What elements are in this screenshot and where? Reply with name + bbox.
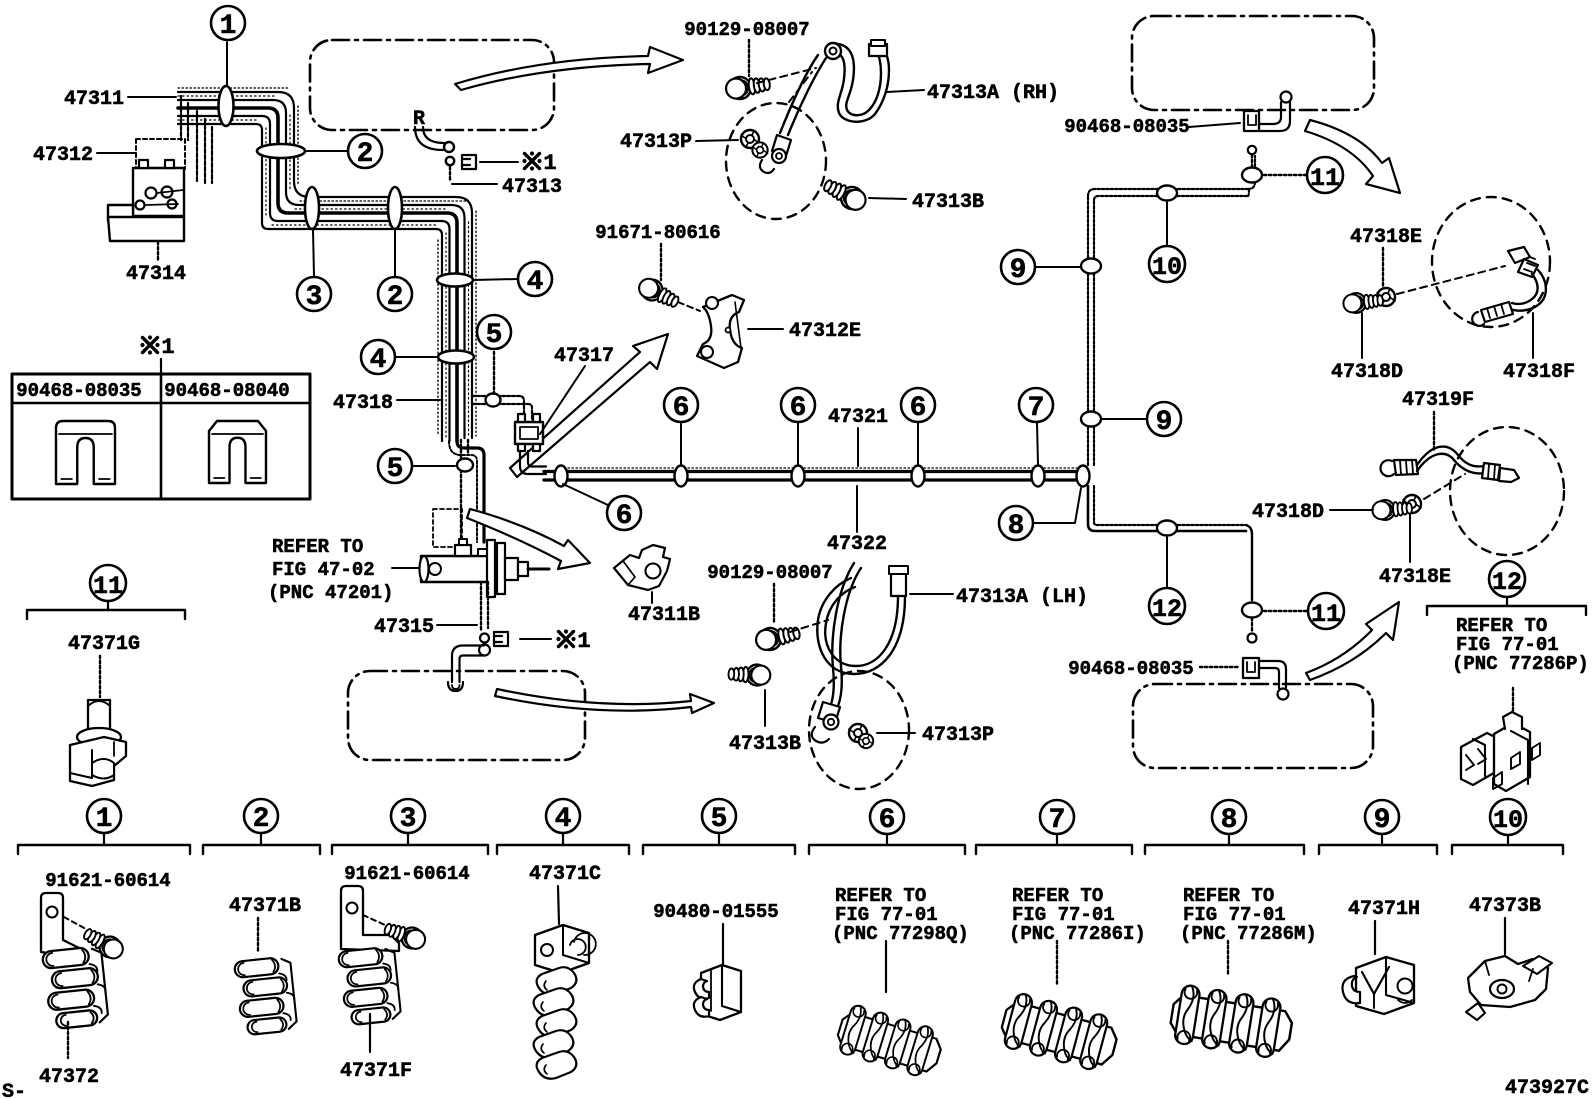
proportioning valve 47317 <box>515 414 543 451</box>
label x1 mid <box>556 629 590 654</box>
dashed leaders bolt to hose LH <box>790 620 828 632</box>
label 47318 <box>333 392 440 415</box>
svg-text:6: 6 <box>616 501 633 532</box>
svg-text:47373B: 47373B <box>1469 895 1541 918</box>
bolt c3 <box>382 918 428 952</box>
grommet clamp point 9a on rear tube <box>1081 259 1101 274</box>
label 47318D lower <box>1252 501 1373 524</box>
flare nut 47315 <box>480 634 489 643</box>
svg-text:9: 9 <box>1156 407 1173 438</box>
clamp icon 47371G <box>70 700 126 786</box>
svg-text:47313: 47313 <box>502 176 562 199</box>
bolt 47313B LH <box>728 664 771 686</box>
corner text S- <box>2 1081 26 1099</box>
grommet clamp point 3 on bundle <box>305 187 319 229</box>
leader x1 top <box>480 161 518 163</box>
label 47319F <box>1402 389 1474 450</box>
circled 2 lower <box>378 277 412 313</box>
leader circled 6d <box>917 423 919 464</box>
leader clamp 12 <box>1512 688 1514 734</box>
svg-text:47311: 47311 <box>64 88 124 111</box>
clamp c9 <box>1342 957 1414 1014</box>
label 47312 <box>33 144 136 167</box>
arrow to 47312E <box>510 334 668 477</box>
label 47321 <box>828 406 888 466</box>
svg-text:12: 12 <box>1152 595 1182 624</box>
circled 8 <box>999 506 1033 542</box>
leader c8 <box>1227 941 1229 976</box>
hose 47313A LH <box>812 563 908 743</box>
label 47371C <box>529 863 601 924</box>
label 47318E lower <box>1379 514 1451 589</box>
svg-text:90129-08007: 90129-08007 <box>684 19 809 41</box>
curved arrow to LH front hose <box>495 689 714 713</box>
circled 6a <box>607 496 641 532</box>
circled 7 <box>1019 388 1053 424</box>
tube elbow 47315 end <box>448 645 490 692</box>
circled 12a <box>1149 588 1185 624</box>
circled b1 <box>87 799 121 835</box>
dash-dot box rear RH body (top right) <box>1132 16 1374 110</box>
tube valve to main line <box>520 451 546 474</box>
grommet clamp point 4 lower on vertical bundle <box>438 351 474 364</box>
label 47312E <box>748 320 861 343</box>
svg-text:REFER TO: REFER TO <box>272 536 363 558</box>
circled 9b <box>1147 402 1181 438</box>
svg-text:91671-80616: 91671-80616 <box>595 222 720 244</box>
leader circled 5b <box>413 465 455 467</box>
svg-text:47313B: 47313B <box>912 191 984 214</box>
label 90129-08007 LH <box>707 562 832 622</box>
grommet clamp point 12a <box>1157 521 1177 536</box>
label 47311 <box>64 88 176 111</box>
circled 11a <box>1307 157 1343 193</box>
clamp c4 tail <box>534 967 577 1079</box>
dashed bolt leader c3 <box>363 915 385 925</box>
dash-dot box front body (top center) <box>310 40 554 130</box>
tube 47315 below cylinder <box>481 582 488 632</box>
bolt 47313B RH <box>820 175 869 215</box>
tube elbow out of rear RH body (top right) <box>1259 92 1292 132</box>
label 47318D upper <box>1331 313 1403 384</box>
label 47315 <box>374 616 477 639</box>
leader 47371F <box>369 1014 371 1052</box>
grommet clamp point 2 lower on bundle <box>388 187 402 229</box>
grommet clamp point 7 <box>1032 466 1045 487</box>
svg-text:47318D: 47318D <box>1252 501 1324 524</box>
grommet clamp point 6c <box>792 466 805 487</box>
svg-text:9: 9 <box>1010 255 1027 286</box>
dashed leader nut to hose LH <box>1424 474 1465 499</box>
svg-text:6: 6 <box>879 805 896 836</box>
svg-text:(PNC 77286M): (PNC 77286M) <box>1180 923 1317 945</box>
brake actuator dashed outline 47312 <box>136 139 185 169</box>
svg-text:(PNC 47201): (PNC 47201) <box>268 582 393 604</box>
tubes dropping from bundle into brake actuator <box>181 96 212 183</box>
grommet clamp point 4 upper on vertical bundle <box>437 274 473 287</box>
clip icon 90468-08035 <box>56 421 115 484</box>
label 47314 <box>126 222 186 286</box>
svg-text:47319F: 47319F <box>1402 389 1474 412</box>
flare circle rear RH <box>1248 146 1256 167</box>
circled b9 <box>1365 800 1399 836</box>
svg-text:47312E: 47312E <box>789 320 861 343</box>
bracket column 11 left <box>27 601 185 619</box>
svg-text:91621-60614: 91621-60614 <box>45 870 170 892</box>
circled b2 <box>244 799 278 835</box>
svg-text:5: 5 <box>387 454 404 485</box>
clip 90468-08035 rear LH <box>1243 658 1259 678</box>
label 47371B <box>229 895 301 953</box>
text refer fig 47-02 <box>268 536 393 604</box>
grommet clamp point 6b <box>675 466 688 487</box>
grommet clamp point 6d <box>912 466 925 487</box>
svg-text:47371F: 47371F <box>340 1060 412 1083</box>
junction grommet at main line end <box>1077 466 1090 487</box>
bracket column 1 <box>18 833 190 854</box>
circled 11 left <box>90 565 126 601</box>
bracket column 9 <box>1319 834 1437 854</box>
svg-text:(PNC 77286I): (PNC 77286I) <box>1009 923 1146 945</box>
bracket column 8 <box>1145 834 1304 854</box>
label 47313P RH <box>620 131 738 154</box>
clip x1 mid <box>494 632 508 646</box>
grommet clamp point 1 on bundle <box>219 86 234 126</box>
circled b8 <box>1212 800 1246 836</box>
clip table box <box>12 374 310 499</box>
label 47313B LH <box>729 690 801 756</box>
leader c6 <box>885 941 887 992</box>
flare circle 47313 <box>446 157 454 165</box>
circled 12b <box>1489 561 1525 597</box>
leader c7 <box>1056 941 1058 984</box>
svg-text:47372: 47372 <box>39 1066 99 1089</box>
label 90480-01555 c5 <box>653 901 778 964</box>
svg-text:47318D: 47318D <box>1331 361 1403 384</box>
circled b4 <box>546 799 580 835</box>
circled 9a <box>1001 250 1035 286</box>
dashed ellipse rear RH hose <box>1432 197 1550 327</box>
svg-text:47313P: 47313P <box>922 724 994 747</box>
dashed leader to 47312E <box>678 302 700 311</box>
leader circled 10 <box>1166 202 1168 245</box>
dash-dot box rear LH body (bottom right) <box>1133 684 1373 768</box>
leader circled 9a <box>1036 266 1080 268</box>
bolt 47318D lower <box>1372 498 1413 521</box>
clamp c8 <box>1168 983 1295 1060</box>
bracket column 12 <box>1427 597 1586 615</box>
curved arrow to rear RH hose <box>1305 120 1400 193</box>
svg-text:90480-01555: 90480-01555 <box>653 901 778 923</box>
svg-text:4: 4 <box>370 345 387 376</box>
label 90468-08035 upper <box>1064 116 1240 138</box>
clamp c1 <box>42 946 109 1030</box>
bracket column 4 <box>497 833 629 854</box>
label 47313A LH <box>910 586 1088 609</box>
clip symbol x1 top <box>462 155 476 169</box>
leader 47313 <box>450 167 497 184</box>
circled 2 upper <box>348 134 382 170</box>
clamp c4 head <box>535 925 596 973</box>
label 47322 <box>827 486 887 556</box>
bracket 47311B <box>614 545 670 590</box>
label 91621-60614 c1 <box>45 870 170 892</box>
svg-text:2: 2 <box>357 139 374 170</box>
bracket column 5 <box>643 833 795 854</box>
dashed bolt leader c1 <box>64 917 86 929</box>
svg-text:8: 8 <box>1008 511 1025 542</box>
label 47313 <box>502 176 562 199</box>
svg-text:47311B: 47311B <box>628 604 700 627</box>
clamp c3 <box>338 946 402 1026</box>
leader circled 2 upper <box>307 150 348 152</box>
curved arrow to column 12 clamp <box>1306 602 1399 680</box>
clamp c5 <box>694 965 741 1020</box>
nuts 47313P RH <box>741 130 768 158</box>
label 47311B <box>628 592 700 627</box>
svg-text:S-: S- <box>2 1081 26 1099</box>
grommet clamp point 9b on rear tube <box>1081 412 1101 427</box>
circled b6 <box>870 800 904 836</box>
grommet clamp point 5a on branch <box>486 394 501 407</box>
svg-text:47322: 47322 <box>827 533 887 556</box>
hose 47319F rear LH <box>1380 447 1519 482</box>
label 47317 <box>540 345 614 434</box>
svg-text:47313A (RH): 47313A (RH) <box>927 82 1059 105</box>
leader circled 11b <box>1264 610 1307 612</box>
svg-text:47313B: 47313B <box>729 733 801 756</box>
leader circled 8 <box>1034 488 1081 523</box>
table text 90468-08035 <box>16 380 141 402</box>
svg-text:(PNC 77298Q): (PNC 77298Q) <box>832 923 969 945</box>
svg-text:47371H: 47371H <box>1348 898 1420 921</box>
flare nut at R tube end <box>444 142 454 152</box>
bolt c1 <box>80 924 127 963</box>
svg-text:47371G: 47371G <box>68 633 140 656</box>
circled b7 <box>1040 800 1074 836</box>
svg-text:47371C: 47371C <box>529 863 601 886</box>
clamp icon 47373 column 12 <box>1461 712 1540 791</box>
circled b10 <box>1490 799 1526 835</box>
dashed leaders bolt to hose RH <box>757 68 816 102</box>
circled b5 <box>702 799 736 835</box>
label 47371F <box>340 1060 412 1083</box>
svg-text:6: 6 <box>673 393 690 424</box>
leader to master cylinder <box>392 567 420 569</box>
letter R node <box>413 108 425 131</box>
leader circled 7 <box>1037 423 1038 464</box>
grommet clamp point 5b <box>457 459 473 472</box>
rear tube to LH (solid down-right) <box>1088 486 1252 600</box>
leader circled 4 lower <box>396 356 437 358</box>
svg-text:1: 1 <box>577 629 590 654</box>
svg-text:47318E: 47318E <box>1350 226 1422 249</box>
svg-text:12: 12 <box>1492 568 1522 597</box>
leader circled 3 <box>313 230 314 276</box>
bolt 90129-08007 RH <box>725 73 772 101</box>
bolt 91671-80616 <box>635 275 682 313</box>
svg-text:47318E: 47318E <box>1379 566 1451 589</box>
svg-text:2: 2 <box>253 804 270 835</box>
text refer c8 <box>1180 885 1317 945</box>
svg-text:11: 11 <box>1310 164 1340 193</box>
svg-text:4: 4 <box>527 267 544 298</box>
label 90129-08007 RH <box>684 19 809 76</box>
leader circled 4 upper <box>474 279 517 280</box>
svg-text:2: 2 <box>387 282 404 313</box>
svg-text:4: 4 <box>555 804 572 835</box>
circled 6c <box>781 388 815 424</box>
label 47313A RH <box>887 82 1059 105</box>
svg-text:473927C: 473927C <box>1505 1077 1589 1099</box>
svg-text:1: 1 <box>96 804 113 835</box>
hose 47313A RH <box>760 40 889 173</box>
svg-text:1: 1 <box>543 151 556 176</box>
text refer fig 77-01 PNC77286P <box>1452 615 1589 675</box>
label 91671-80616 <box>595 222 720 280</box>
grommet clamp point 2 on bundle (upper) <box>257 144 305 158</box>
svg-text:11: 11 <box>1311 600 1341 629</box>
tube bundle 47311 run (5 parallel brake tubes master cylinder to floor) <box>178 92 472 441</box>
nut 47318E upper <box>1377 288 1395 306</box>
bracket column 7 <box>976 834 1132 854</box>
svg-text:7: 7 <box>1028 393 1045 424</box>
svg-text:9: 9 <box>1374 805 1391 836</box>
hose 47318F rear RH <box>1472 247 1546 326</box>
svg-text:3: 3 <box>400 804 417 835</box>
text refer c6 <box>832 885 969 945</box>
label 47372 <box>39 1066 99 1089</box>
label 47371H <box>1348 898 1420 954</box>
label 47371G <box>68 633 140 697</box>
leader circled 2 lower <box>394 230 396 276</box>
corner text 473927C <box>1505 1077 1589 1099</box>
clip icon 90468-08040 <box>209 421 266 483</box>
clip 90468-08035 upper <box>1244 111 1259 131</box>
svg-text:90129-08007: 90129-08007 <box>707 562 832 584</box>
svg-text:47318F: 47318F <box>1503 361 1575 384</box>
bolt 90129-08007 LH <box>754 622 802 653</box>
svg-text:5: 5 <box>486 320 503 351</box>
bracket column 6 <box>809 834 965 854</box>
leader circled 12a <box>1166 537 1168 587</box>
leader circled 9b <box>1102 418 1146 420</box>
svg-text:8: 8 <box>1221 805 1238 836</box>
tube branch to proportioning valve 47317 <box>472 396 532 420</box>
svg-text:1: 1 <box>220 11 237 42</box>
svg-text:47312: 47312 <box>33 144 93 167</box>
leader circled 6b <box>680 423 682 464</box>
curved arrow to 47311B <box>467 509 590 569</box>
svg-text:90468-08035: 90468-08035 <box>1068 658 1193 680</box>
grommet clamp point 6a <box>555 466 568 487</box>
dashed ellipse rear LH hose <box>1450 427 1564 555</box>
leader circled 6c <box>797 423 799 464</box>
svg-text:90468-08035: 90468-08035 <box>1064 116 1189 138</box>
label 47318E upper <box>1350 226 1422 287</box>
svg-text:47317: 47317 <box>554 345 614 368</box>
strap bracket c3 <box>341 886 399 951</box>
svg-text:47313A (LH): 47313A (LH) <box>956 586 1088 609</box>
label 91621-60614 c3 <box>344 863 469 885</box>
label 47318F <box>1503 313 1575 384</box>
svg-text:91621-60614: 91621-60614 <box>344 863 469 885</box>
circled 4 lower <box>361 340 395 376</box>
leader circled 5 upper <box>493 352 495 393</box>
svg-text:10: 10 <box>1152 253 1182 282</box>
clamp c6 <box>833 1002 946 1080</box>
strap bracket c1 <box>41 893 83 958</box>
leader circled 11a <box>1264 174 1307 176</box>
nut 47318E lower <box>1403 495 1421 513</box>
leader circled 1 <box>226 42 228 85</box>
cushion 47312E <box>697 295 744 368</box>
circled 6b <box>664 388 698 424</box>
brake actuator body 47314 <box>108 160 184 241</box>
svg-text:10: 10 <box>1493 806 1523 835</box>
circled 5 upper <box>477 315 511 351</box>
svg-text:1: 1 <box>161 335 174 360</box>
circled 6d <box>901 388 935 424</box>
master cylinder PNC47201 <box>420 539 550 597</box>
tube elbow into rear LH body <box>1259 661 1289 700</box>
leader circled 6a <box>563 484 610 506</box>
dashed ellipse RH hose detail <box>726 103 826 219</box>
grommet clamp point 11b <box>1242 603 1262 618</box>
svg-text:5: 5 <box>711 804 728 835</box>
grommet clamp point 11a <box>1242 168 1262 183</box>
table text 90468-08040 <box>164 380 289 402</box>
svg-text:6: 6 <box>910 393 927 424</box>
bolt 47318D upper <box>1342 290 1383 314</box>
svg-text:47321: 47321 <box>828 406 888 429</box>
grommet clamp point 10 on rear tube <box>1157 186 1177 201</box>
tube down through clamp 5b (hatched) <box>461 440 468 540</box>
svg-text:47318: 47318 <box>333 392 393 415</box>
svg-text:11: 11 <box>93 572 123 601</box>
tube from node R <box>415 127 444 150</box>
svg-text:FIG 47-02: FIG 47-02 <box>272 559 375 581</box>
clamp c10 <box>1466 956 1552 1020</box>
main brake tube pair 47321 47322 <box>544 468 1085 480</box>
svg-text:(PNC 77286P): (PNC 77286P) <box>1452 653 1589 675</box>
svg-text:3: 3 <box>306 282 323 313</box>
label x1 above table <box>140 335 174 373</box>
circled 11b <box>1308 593 1344 629</box>
svg-text:90468-08040: 90468-08040 <box>164 380 289 402</box>
rear tube to RH (dotted up) <box>1088 156 1255 465</box>
dashed ellipse LH hose detail <box>809 671 909 789</box>
svg-text:90468-08035: 90468-08035 <box>16 380 141 402</box>
label x1 top <box>522 151 556 176</box>
text refer c7 <box>1009 885 1146 945</box>
svg-text:47314: 47314 <box>126 263 186 286</box>
circled 10 <box>1149 246 1185 282</box>
nuts 47313P LH <box>849 724 873 748</box>
dashed leader nut to hose RH <box>1397 266 1505 294</box>
circled 1 <box>211 6 245 42</box>
bracket column 10 <box>1452 835 1563 854</box>
label 47313B RH <box>869 191 984 214</box>
tube bundle hatch texture <box>178 88 476 438</box>
flare circle rear LH <box>1248 618 1257 643</box>
dashed section rect near master cylinder <box>433 509 462 547</box>
circled 5b <box>378 449 412 485</box>
clamp c7 <box>997 991 1122 1075</box>
circled b3 <box>391 799 425 835</box>
label 90468-08035 lower <box>1068 658 1240 680</box>
dash-dot box front-lower body (bottom center) <box>348 671 585 760</box>
